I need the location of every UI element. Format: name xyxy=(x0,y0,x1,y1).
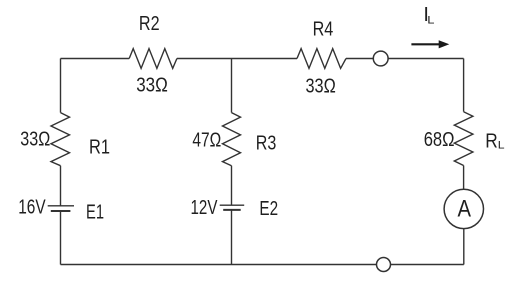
svg-text:R2: R2 xyxy=(139,13,160,35)
svg-text:R: R xyxy=(485,131,498,153)
svg-text:47Ω: 47Ω xyxy=(192,130,221,152)
svg-text:R1: R1 xyxy=(89,136,110,158)
svg-text:12V: 12V xyxy=(191,197,218,219)
svg-text:L: L xyxy=(427,15,434,27)
svg-text:33Ω: 33Ω xyxy=(20,128,50,150)
svg-text:R4: R4 xyxy=(313,19,334,41)
svg-text:R3: R3 xyxy=(256,132,277,154)
svg-text:16V: 16V xyxy=(18,197,46,219)
svg-text:E1: E1 xyxy=(86,202,104,224)
svg-text:33Ω: 33Ω xyxy=(136,75,168,97)
svg-text:A: A xyxy=(457,196,471,223)
svg-text:E2: E2 xyxy=(259,198,278,220)
svg-text:L: L xyxy=(498,140,505,152)
svg-text:33Ω: 33Ω xyxy=(306,75,336,97)
svg-text:68Ω: 68Ω xyxy=(424,129,455,151)
